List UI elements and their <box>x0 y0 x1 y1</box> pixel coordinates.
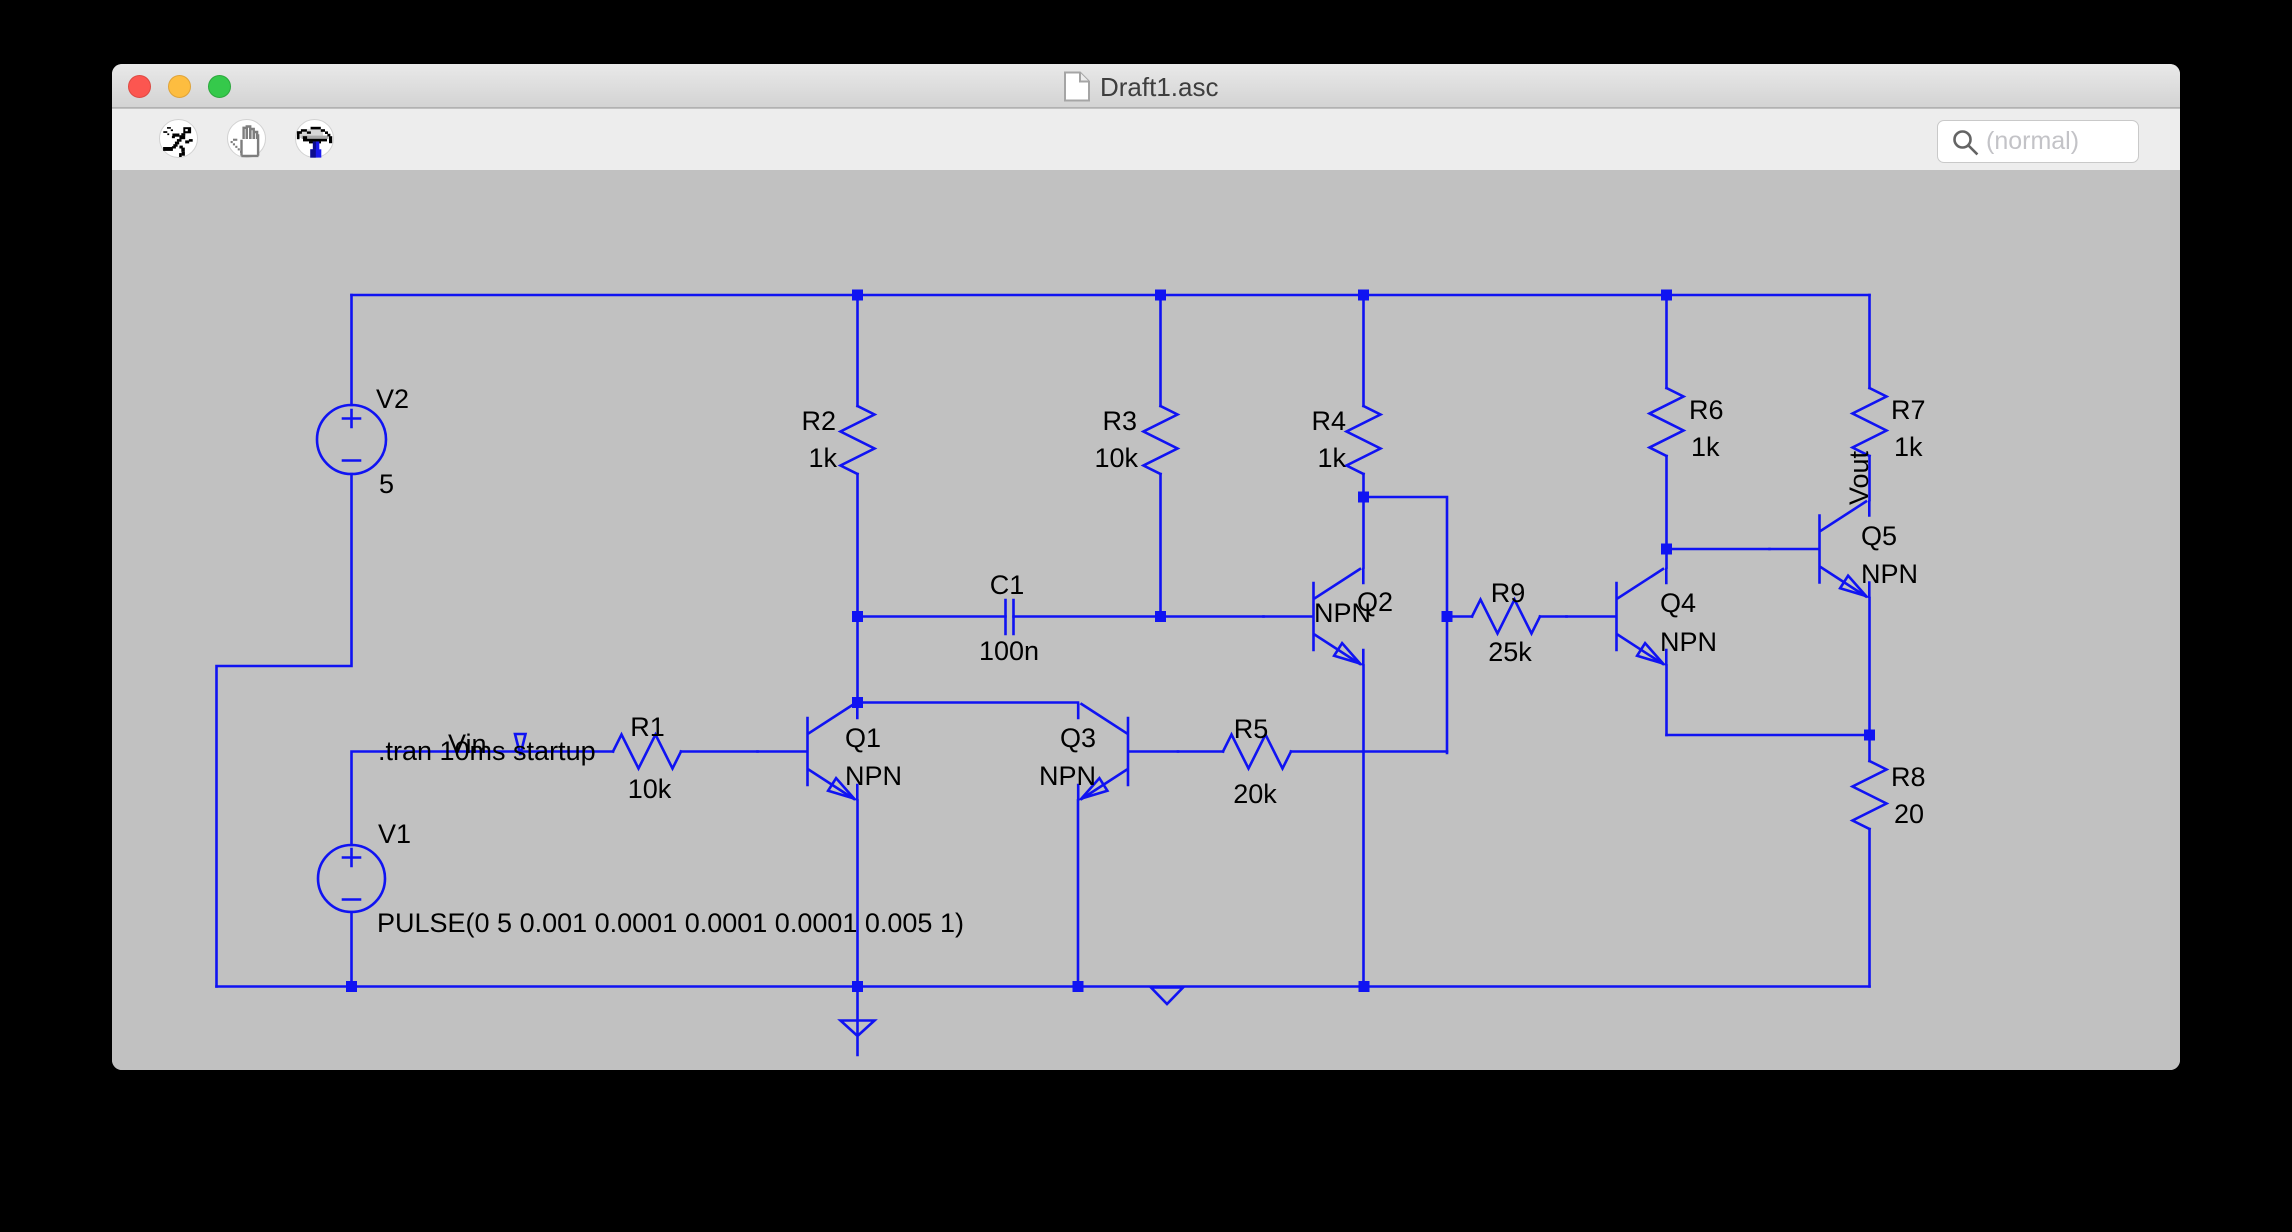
svg-text:10k: 10k <box>1094 443 1138 473</box>
junction top rail R6 <box>1661 290 1672 301</box>
transistor Q5 <box>1770 502 1870 597</box>
svg-text:1k: 1k <box>1691 432 1720 462</box>
wire R4 bottom <box>1362 474 1365 497</box>
junction C1 left <box>852 611 863 622</box>
ground symbol at Q1 emitter <box>841 987 875 1056</box>
wire Q2 emitter down <box>1362 666 1365 987</box>
svg-text:Vin: Vin <box>448 729 487 759</box>
wire R9 left stub <box>1447 615 1472 618</box>
svg-text:R8: R8 <box>1891 762 1926 792</box>
ground net flag on bottom rail <box>1151 988 1183 1005</box>
svg-text:Q4: Q4 <box>1660 588 1696 618</box>
svg-text:R3: R3 <box>1102 406 1137 436</box>
svg-text:NPN: NPN <box>1314 598 1371 628</box>
svg-text:NPN: NPN <box>1660 627 1717 657</box>
wire R6 top <box>1665 295 1668 388</box>
svg-text:R1: R1 <box>630 712 665 742</box>
wire Q1 collector up <box>856 617 859 703</box>
wire Q1 collector to Q3 collector <box>858 701 1079 704</box>
wire R2 top <box>856 295 859 406</box>
svg-text:PULSE(0 5 0.001 0.0001 0.0001: PULSE(0 5 0.001 0.0001 0.0001 0.0001 0.0… <box>377 908 964 938</box>
wire V2 top <box>350 295 353 405</box>
svg-text:Q3: Q3 <box>1060 723 1096 753</box>
transistor Q4 <box>1567 569 1667 664</box>
junction Q5 emitter R8 <box>1864 730 1875 741</box>
junction V1 minus on rail <box>346 981 357 992</box>
junction R6 bottom <box>1661 544 1672 555</box>
svg-text:1k: 1k <box>1317 443 1346 473</box>
resistor R5 <box>1223 735 1291 769</box>
resistor R3 <box>1144 406 1178 474</box>
svg-text:1k: 1k <box>1894 432 1923 462</box>
svg-text:20k: 20k <box>1233 779 1277 809</box>
resistor R4 <box>1347 406 1381 474</box>
wire Q4 emitter down <box>1665 666 1668 736</box>
junction R9 left <box>1442 611 1453 622</box>
wire C1 left <box>858 615 1006 618</box>
wire +5V top rail <box>352 294 1870 297</box>
svg-text:5: 5 <box>379 469 394 499</box>
wire R4 top <box>1362 295 1365 406</box>
wire R6 bottom <box>1665 456 1668 549</box>
capacitor C1 <box>1006 600 1014 634</box>
toolbar run icon <box>163 127 193 157</box>
svg-text:R2: R2 <box>801 406 836 436</box>
net flag Vin <box>515 734 526 755</box>
junction top rail R2 <box>852 290 863 301</box>
wire Q5 emitter down <box>1868 598 1871 735</box>
junction R4 bottom <box>1358 492 1369 503</box>
resistor R9 <box>1472 600 1540 634</box>
wire V2 bottom to left rail <box>217 474 352 987</box>
wire R7 top <box>1868 295 1871 388</box>
wire R8 top stub <box>1868 735 1871 761</box>
wire C1 right to R3 bottom <box>1014 615 1161 618</box>
resistor R1 <box>613 735 681 769</box>
svg-text:R7: R7 <box>1891 395 1926 425</box>
wire V1 top to Vin <box>352 752 614 846</box>
svg-text:NPN: NPN <box>845 761 902 791</box>
wire R2 bottom to C1 node <box>856 474 859 617</box>
wire Q4 collector up <box>1665 549 1668 568</box>
toolbar hand icon <box>231 127 259 156</box>
wire Q4 emitter to R8 top <box>1667 734 1870 737</box>
resistor R8 <box>1853 761 1887 829</box>
wire R3 top <box>1159 295 1162 406</box>
svg-text:R6: R6 <box>1689 395 1724 425</box>
wire Q3 emitter down <box>1077 801 1080 987</box>
wire ground bottom rail <box>217 985 1870 988</box>
svg-text:R5: R5 <box>1234 714 1269 744</box>
svg-text:.tran 10ms startup: .tran 10ms startup <box>378 736 596 766</box>
wire R8 bottom <box>1868 829 1871 987</box>
svg-text:R4: R4 <box>1311 406 1346 436</box>
svg-text:25k: 25k <box>1488 637 1532 667</box>
svg-text:Vout: Vout <box>1844 450 1874 505</box>
resistor R7 <box>1853 388 1887 456</box>
svg-text:NPN: NPN <box>1039 761 1096 791</box>
wire V1 bottom <box>350 912 353 987</box>
wire R3 bottom <box>1159 474 1162 617</box>
wire R1 right to Q1 base <box>681 750 758 753</box>
svg-text:V2: V2 <box>376 384 409 414</box>
svg-text:Q5: Q5 <box>1861 521 1897 551</box>
junction top rail R3 <box>1155 290 1166 301</box>
svg-text:C1: C1 <box>990 570 1025 600</box>
junction top rail R4 <box>1358 290 1369 301</box>
wire Q4 base node to Q5 base <box>1667 548 1770 551</box>
wire Q3 base to R5 <box>1178 750 1223 753</box>
wire Q2 collector up <box>1362 497 1365 568</box>
toolbar search magnifier <box>1955 132 1977 154</box>
svg-text:V1: V1 <box>378 819 411 849</box>
wire Q1 emitter down <box>856 801 859 987</box>
wire R9 right to Q4 base <box>1540 615 1567 618</box>
wire R7 bottom to Q5 collector <box>1868 456 1871 500</box>
svg-text:10k: 10k <box>628 774 672 804</box>
junction Q1 emitter on rail <box>852 981 863 992</box>
junction Q2 emitter on rail <box>1359 981 1370 992</box>
transistor Q2 <box>1264 569 1364 664</box>
svg-text:100n: 100n <box>979 636 1039 666</box>
svg-text:1k: 1k <box>808 443 837 473</box>
junction Q1 collector <box>852 697 863 708</box>
wire R4 junction to R9 column <box>1364 497 1448 753</box>
resistor R6 <box>1650 388 1684 456</box>
svg-text:Q1: Q1 <box>845 723 881 753</box>
svg-text:R9: R9 <box>1491 578 1526 608</box>
toolbar hammer icon <box>297 127 332 158</box>
transistor Q3 <box>1078 704 1178 799</box>
svg-text:NPN: NPN <box>1861 559 1918 589</box>
wire R5 right <box>1291 750 1447 753</box>
wire Q2 base net <box>1161 615 1264 618</box>
resistor R2 <box>841 406 875 474</box>
svg-text:20: 20 <box>1894 799 1924 829</box>
junction Q3 emitter on rail <box>1073 981 1084 992</box>
junction C1 right <box>1155 611 1166 622</box>
transistor Q1 <box>758 704 858 799</box>
voltage source V1 <box>318 845 385 912</box>
voltage source V2 <box>317 405 386 474</box>
